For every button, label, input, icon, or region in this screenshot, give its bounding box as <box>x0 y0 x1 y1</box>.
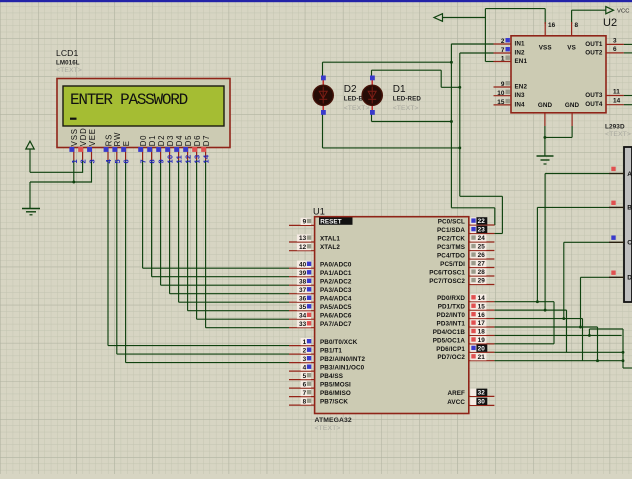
U1 pin 12 XTAL2 <box>289 250 315 252</box>
svg-text:PB0/T0/XCK: PB0/T0/XCK <box>320 339 358 346</box>
svg-text:38: 38 <box>299 278 307 285</box>
U1 pin 5 PB4/SS <box>289 379 315 381</box>
svg-text:E: E <box>122 140 131 146</box>
svg-text:PC6/TOSC1: PC6/TOSC1 <box>429 270 465 277</box>
LCD LCD1 LM016L body <box>57 79 230 148</box>
svg-text:PA1/ADC1: PA1/ADC1 <box>320 270 352 277</box>
svg-text:AREF: AREF <box>447 390 465 397</box>
svg-text:VS: VS <box>567 45 576 52</box>
keypad component fragment right edge <box>624 147 632 302</box>
LCD pin 13 D6 <box>196 148 198 161</box>
svg-text:XTAL2: XTAL2 <box>320 244 340 251</box>
svg-text:D4: D4 <box>175 135 184 147</box>
U1 pin 4 PB3/AIN1/OC0 <box>289 370 315 372</box>
svg-text:24: 24 <box>478 235 486 242</box>
svg-text:23: 23 <box>478 227 486 234</box>
U1 pin 23 PC1/SDA <box>469 233 495 235</box>
U1 pin 30 AVCC <box>469 404 495 406</box>
wire D2 top to IN1/PC0 net <box>322 62 324 80</box>
wire EN1 power rail <box>442 17 485 19</box>
LED D1 LED-RED <box>371 80 373 87</box>
LCD pin 12 D5 <box>187 148 189 161</box>
keypad pin D <box>609 276 624 278</box>
U1 pin 22 PC0/SCL <box>469 224 495 226</box>
svg-text:PA4/ADC4: PA4/ADC4 <box>320 296 352 303</box>
svg-text:<TEXT>: <TEXT> <box>56 67 82 74</box>
U1 pin 40 PA0/ADC0 <box>289 267 315 269</box>
U1 pin 13 XTAL1 <box>289 241 315 243</box>
svg-text:22: 22 <box>478 218 486 225</box>
wire LCD D7 vertical <box>205 160 207 328</box>
svg-text:37: 37 <box>299 287 307 294</box>
LCD cursor <box>70 118 77 120</box>
wire keypad C net <box>564 241 609 243</box>
svg-text:PA7/ADC7: PA7/ADC7 <box>320 321 352 328</box>
svg-text:PD7/OC2: PD7/OC2 <box>437 354 465 361</box>
svg-text:6: 6 <box>303 381 307 388</box>
svg-text:VSS: VSS <box>539 45 552 52</box>
left-pointing power terminal near U2 <box>434 14 443 22</box>
svg-text:IN1: IN1 <box>515 41 525 48</box>
svg-text:13: 13 <box>193 154 202 163</box>
svg-text:<TEXT>: <TEXT> <box>393 105 419 112</box>
LCD pin 4 RS <box>107 148 109 161</box>
wire LCD pin2 down <box>82 160 84 173</box>
svg-text:U1: U1 <box>313 207 325 217</box>
svg-text:C: C <box>627 240 632 247</box>
svg-text:11: 11 <box>175 155 184 164</box>
svg-text:IN2: IN2 <box>515 50 525 57</box>
LCD pin 8 D1 <box>151 148 153 161</box>
U1 pin 2 PB1/T1 <box>289 353 315 355</box>
svg-text:9: 9 <box>303 219 307 226</box>
wire LCD D3 horizontal <box>170 293 289 295</box>
svg-text:40: 40 <box>299 261 307 268</box>
svg-text:PA2/ADC2: PA2/ADC2 <box>320 279 352 286</box>
U1 pin 15 PD1/TXD <box>469 309 495 311</box>
U2 pin 2 IN1 <box>494 43 512 45</box>
U2 pin 9 EN2 <box>494 86 512 88</box>
svg-text:PC1/SDA: PC1/SDA <box>437 227 465 234</box>
wire LCD RS/RW/E 2 horizontal <box>126 362 289 364</box>
wire LCD D6 horizontal <box>197 318 289 320</box>
svg-text:9: 9 <box>501 81 505 88</box>
svg-text:D0: D0 <box>139 135 148 147</box>
LCD pin 5 RW <box>116 148 118 161</box>
U1 pin 28 PC6/TOSC1 <box>469 275 495 277</box>
wire LCD D0 horizontal <box>143 267 289 269</box>
svg-text:PA5/ADC5: PA5/ADC5 <box>320 304 352 311</box>
ground symbol left <box>22 208 40 210</box>
svg-text:29: 29 <box>478 278 486 285</box>
svg-text:PD6/ICP1: PD6/ICP1 <box>436 346 465 353</box>
U2 pin 8 VS <box>571 22 573 36</box>
U2 GND pins <box>544 113 546 126</box>
svg-text:OUT2: OUT2 <box>585 49 603 56</box>
U1 pin 38 PA2/ADC2 <box>289 284 315 286</box>
svg-text:XTAL1: XTAL1 <box>320 236 340 243</box>
LCD screen <box>63 86 224 126</box>
U1 pin 16 PD2/INT0 <box>469 318 495 320</box>
wire LCD pin3 down <box>91 160 93 183</box>
wire LCD RS/RW/E 2 vertical <box>125 160 127 363</box>
svg-text:PD1/TXD: PD1/TXD <box>438 304 466 311</box>
svg-text:4: 4 <box>303 364 307 371</box>
svg-text:2: 2 <box>79 159 88 164</box>
svg-text:IN4: IN4 <box>515 101 525 108</box>
svg-text:D1: D1 <box>393 84 406 95</box>
power terminal (up arrow) left <box>26 141 34 149</box>
svg-text:EN1: EN1 <box>515 58 528 65</box>
svg-text:1: 1 <box>70 159 79 164</box>
svg-text:OUT4: OUT4 <box>585 101 603 108</box>
svg-text:8: 8 <box>575 22 579 29</box>
svg-text:AVCC: AVCC <box>447 399 465 406</box>
U1 pin 17 PD3/INT1 <box>469 326 495 328</box>
svg-text:GND: GND <box>565 102 580 109</box>
svg-text:16: 16 <box>548 22 556 29</box>
wire PD6 row extension <box>567 351 624 353</box>
svg-text:VCC: VCC <box>617 9 630 15</box>
svg-text:PD5/OC1A: PD5/OC1A <box>433 337 466 344</box>
U1 pin 18 PD4/OC1B <box>469 334 495 336</box>
svg-text:30: 30 <box>478 399 486 406</box>
wire U2 GND <box>544 126 546 156</box>
svg-text:PB3/AIN1/OC0: PB3/AIN1/OC0 <box>320 365 365 372</box>
wire LCD pin1 down <box>73 160 75 183</box>
svg-text:25: 25 <box>478 244 486 251</box>
U1 pin 24 PC2/TCK <box>469 241 495 243</box>
U2 pin 10 IN3 <box>494 95 512 97</box>
U1 pin 34 PA6/ADC6 <box>289 318 315 320</box>
wire keypad B net <box>537 206 609 208</box>
svg-text:PC0/SCL: PC0/SCL <box>438 219 465 226</box>
svg-text:VDD: VDD <box>79 127 88 146</box>
svg-text:L293D: L293D <box>605 123 625 130</box>
U1 pin 20 PD6/ICP1 <box>469 351 495 353</box>
wire VDD rail <box>30 171 83 173</box>
svg-text:OUT3: OUT3 <box>585 92 603 99</box>
svg-text:D1: D1 <box>148 135 157 147</box>
wire LCD D5 horizontal <box>188 310 289 312</box>
svg-text:15: 15 <box>478 303 486 310</box>
wire LCD RS/RW/E 0 horizontal <box>108 345 289 347</box>
svg-text:<TEXT>: <TEXT> <box>344 105 370 112</box>
wire VS to VCC <box>571 10 573 24</box>
U1 pin 33 PA7/ADC7 <box>289 327 315 329</box>
svg-text:14: 14 <box>613 98 621 105</box>
svg-text:PB7/SCK: PB7/SCK <box>320 399 348 406</box>
svg-text:VSS: VSS <box>70 128 79 146</box>
svg-text:RESET: RESET <box>320 219 342 226</box>
LCD pin 10 D3 <box>169 148 171 161</box>
svg-text:D5: D5 <box>184 135 193 147</box>
wire LCD D3 vertical <box>169 160 171 294</box>
ground symbol under U2 <box>537 155 554 157</box>
svg-text:ENTER PASSWORD: ENTER PASSWORD <box>70 91 188 109</box>
svg-text:11: 11 <box>613 89 620 96</box>
wire LCD RS/RW/E 1 horizontal <box>117 353 289 355</box>
U2 pin 16 VSS <box>544 22 546 36</box>
wire LCD D5 vertical <box>187 160 189 311</box>
U2 pin 15 IN4 <box>494 104 512 106</box>
svg-text:U2: U2 <box>603 17 617 29</box>
svg-text:LM016L: LM016L <box>56 60 80 67</box>
LCD pin 14 D7 <box>205 148 207 161</box>
svg-text:16: 16 <box>478 312 486 319</box>
U1 pin 27 PC5/TDI <box>469 267 495 269</box>
U1 pin 6 PB5/MOSI <box>289 387 315 389</box>
wire keypad A net <box>545 173 609 175</box>
svg-text:4: 4 <box>104 159 113 164</box>
svg-text:7: 7 <box>501 47 505 54</box>
svg-text:PB2/AIN0/INT2: PB2/AIN0/INT2 <box>320 356 365 363</box>
svg-text:35: 35 <box>299 304 307 311</box>
wire VSS-VEE rail <box>30 181 92 183</box>
svg-text:9: 9 <box>157 159 166 164</box>
svg-text:21: 21 <box>478 354 486 361</box>
wire power stem <box>29 149 31 172</box>
keypad pin C <box>609 241 624 243</box>
svg-text:1: 1 <box>303 339 307 346</box>
svg-text:LED-RED: LED-RED <box>393 96 422 103</box>
keypad pin A <box>609 173 624 175</box>
LCD pin 2 VDD <box>82 148 84 161</box>
wire LCD RS/RW/E 0 vertical <box>107 160 109 346</box>
svg-text:10: 10 <box>497 90 505 97</box>
svg-text:26: 26 <box>478 252 486 259</box>
svg-text:6: 6 <box>122 159 131 164</box>
svg-text:8: 8 <box>148 159 157 164</box>
wire OUT2 exit <box>624 52 632 54</box>
U1 pin 36 PA4/ADC4 <box>289 301 315 303</box>
svg-text:IN3: IN3 <box>515 92 525 99</box>
wire keypad D net <box>581 276 610 278</box>
wire LCD D4 horizontal <box>179 301 289 303</box>
VCC terminal right arrow <box>606 7 614 14</box>
junction VSS rail <box>72 181 75 184</box>
svg-text:PD3/INT1: PD3/INT1 <box>437 320 466 327</box>
U1 pin 37 PA3/ADC3 <box>289 293 315 295</box>
svg-text:32: 32 <box>478 390 486 397</box>
svg-text:14: 14 <box>478 295 486 302</box>
U1 pin 32 AREF <box>469 395 495 397</box>
svg-text:7: 7 <box>139 159 148 164</box>
wire LCD D1 horizontal <box>152 276 289 278</box>
U2 pin 1 EN1 <box>494 61 512 63</box>
svg-text:6: 6 <box>613 46 617 53</box>
wire PD4 net to right edge <box>494 334 621 336</box>
U1 pin 9 RESET <box>289 224 315 226</box>
LCD pin 6 E <box>125 148 127 161</box>
svg-text:12: 12 <box>184 154 193 163</box>
U1 pin 19 PD5/OC1A <box>469 343 495 345</box>
svg-text:PC5/TDI: PC5/TDI <box>440 261 465 268</box>
svg-text:PB1/T1: PB1/T1 <box>320 348 342 355</box>
svg-text:2: 2 <box>303 347 307 354</box>
svg-text:D: D <box>627 275 632 282</box>
IC U1 ATMEGA32 body <box>315 217 469 414</box>
keypad pin B <box>609 206 624 208</box>
IC U2 L293D body <box>511 36 606 113</box>
wire LCD RS/RW/E 1 vertical <box>116 160 118 354</box>
svg-text:B: B <box>627 205 632 212</box>
svg-text:7: 7 <box>303 390 307 397</box>
U2 pin 11 OUT3 <box>606 95 624 97</box>
LCD pin 3 VEE <box>91 148 93 161</box>
svg-text:28: 28 <box>478 269 486 276</box>
svg-text:PB4/SS: PB4/SS <box>320 373 343 380</box>
svg-text:5: 5 <box>303 373 307 380</box>
svg-text:GND: GND <box>538 102 553 109</box>
svg-text:12: 12 <box>299 244 307 251</box>
wire LCD D1 vertical <box>151 160 153 277</box>
wire D1 top to IN2/PC1 net <box>371 70 373 80</box>
svg-text:D3: D3 <box>166 135 175 147</box>
svg-text:39: 39 <box>299 270 307 277</box>
svg-text:VEE: VEE <box>88 128 97 146</box>
LED D2 LED-BLU <box>322 80 324 87</box>
U1 pin 8 PB7/SCK <box>289 404 315 406</box>
svg-text:5: 5 <box>113 159 122 164</box>
wire LCD D6 vertical <box>196 160 198 319</box>
wire LCD D4 vertical <box>178 160 180 302</box>
svg-text:3: 3 <box>88 159 97 164</box>
wire LCD D7 horizontal <box>206 327 289 329</box>
svg-text:PC2/TCK: PC2/TCK <box>437 236 465 243</box>
svg-text:RW: RW <box>113 132 122 146</box>
svg-text:34: 34 <box>299 312 307 319</box>
svg-text:<TEXT>: <TEXT> <box>605 131 631 138</box>
svg-text:LCD1: LCD1 <box>56 48 78 58</box>
wire LCD D2 horizontal <box>161 284 289 286</box>
svg-text:PA0/ADC0: PA0/ADC0 <box>320 262 352 269</box>
U2 pin 14 OUT4 <box>606 104 624 106</box>
U1 pin 7 PB6/MISO <box>289 396 315 398</box>
svg-text:PA6/ADC6: PA6/ADC6 <box>320 313 352 320</box>
svg-text:20: 20 <box>478 345 486 352</box>
svg-text:RS: RS <box>104 134 113 146</box>
svg-text:PD2/INT0: PD2/INT0 <box>437 312 466 319</box>
svg-text:PD0/RXD: PD0/RXD <box>437 295 465 302</box>
svg-text:PB5/MOSI: PB5/MOSI <box>320 382 351 389</box>
wire OUT1 exit <box>624 43 632 45</box>
svg-text:17: 17 <box>478 320 486 327</box>
LCD pin 9 D2 <box>160 148 162 161</box>
U1 pin 29 PC7/TOSC2 <box>469 284 495 286</box>
U2 pin 7 IN2 <box>494 52 512 54</box>
svg-text:3: 3 <box>303 356 307 363</box>
svg-text:14: 14 <box>202 154 211 164</box>
svg-text:13: 13 <box>299 235 307 242</box>
wire D1 bottom <box>371 112 373 122</box>
wire OUT4 exit <box>624 104 632 106</box>
U1 pin 39 PA1/ADC1 <box>289 276 315 278</box>
U1 pin 3 PB2/AIN0/INT2 <box>289 362 315 364</box>
svg-text:<TEXT>: <TEXT> <box>315 425 341 432</box>
svg-text:D6: D6 <box>193 135 202 147</box>
svg-text:33: 33 <box>299 321 307 328</box>
wire to ground <box>29 182 31 209</box>
U1 pin 21 PD7/OC2 <box>469 360 495 362</box>
wire D2 bottom <box>322 112 324 148</box>
LCD pin 1 VSS <box>73 148 75 161</box>
svg-text:10: 10 <box>166 154 175 163</box>
svg-text:PA3/ADC3: PA3/ADC3 <box>320 287 352 294</box>
U2 pin 3 OUT1 <box>606 43 624 45</box>
U1 pin 1 PB0/T0/XCK <box>289 345 315 347</box>
svg-text:15: 15 <box>497 99 505 106</box>
svg-text:PC3/TMS: PC3/TMS <box>437 244 465 251</box>
svg-text:3: 3 <box>613 37 617 44</box>
U1 pin 26 PC4/TDO <box>469 258 495 260</box>
top window border line <box>0 0 632 2</box>
svg-text:PB6/MISO: PB6/MISO <box>320 390 351 397</box>
wire LCD D0 vertical <box>142 160 144 268</box>
svg-text:PC4/TDO: PC4/TDO <box>437 253 465 260</box>
svg-text:A: A <box>627 171 632 178</box>
svg-text:D7: D7 <box>202 135 211 147</box>
svg-text:ATMEGA32: ATMEGA32 <box>315 417 352 424</box>
svg-text:D2: D2 <box>157 135 166 147</box>
wire PD7 row extension <box>583 360 624 362</box>
svg-text:EN2: EN2 <box>515 84 528 91</box>
svg-text:1: 1 <box>501 56 505 63</box>
svg-text:PC7/TOSC2: PC7/TOSC2 <box>429 278 465 285</box>
svg-text:2: 2 <box>501 38 505 45</box>
svg-text:18: 18 <box>478 329 486 336</box>
U1 pin 35 PA5/ADC5 <box>289 310 315 312</box>
LCD pin 7 D0 <box>142 148 144 161</box>
U1 pin 14 PD0/RXD <box>469 301 495 303</box>
svg-text:36: 36 <box>299 295 307 302</box>
LCD pin 11 D4 <box>178 148 180 161</box>
svg-text:OUT1: OUT1 <box>585 41 603 48</box>
U2 pin 6 OUT2 <box>606 52 624 54</box>
wire OUT3 exit <box>624 95 632 97</box>
svg-text:8: 8 <box>303 398 307 405</box>
U1 pin 25 PC3/TMS <box>469 250 495 252</box>
svg-text:PD4/OC1B: PD4/OC1B <box>433 329 466 336</box>
wire LCD D2 vertical <box>160 160 162 285</box>
svg-text:27: 27 <box>478 261 486 268</box>
svg-text:D2: D2 <box>344 84 357 95</box>
svg-text:19: 19 <box>478 337 486 344</box>
